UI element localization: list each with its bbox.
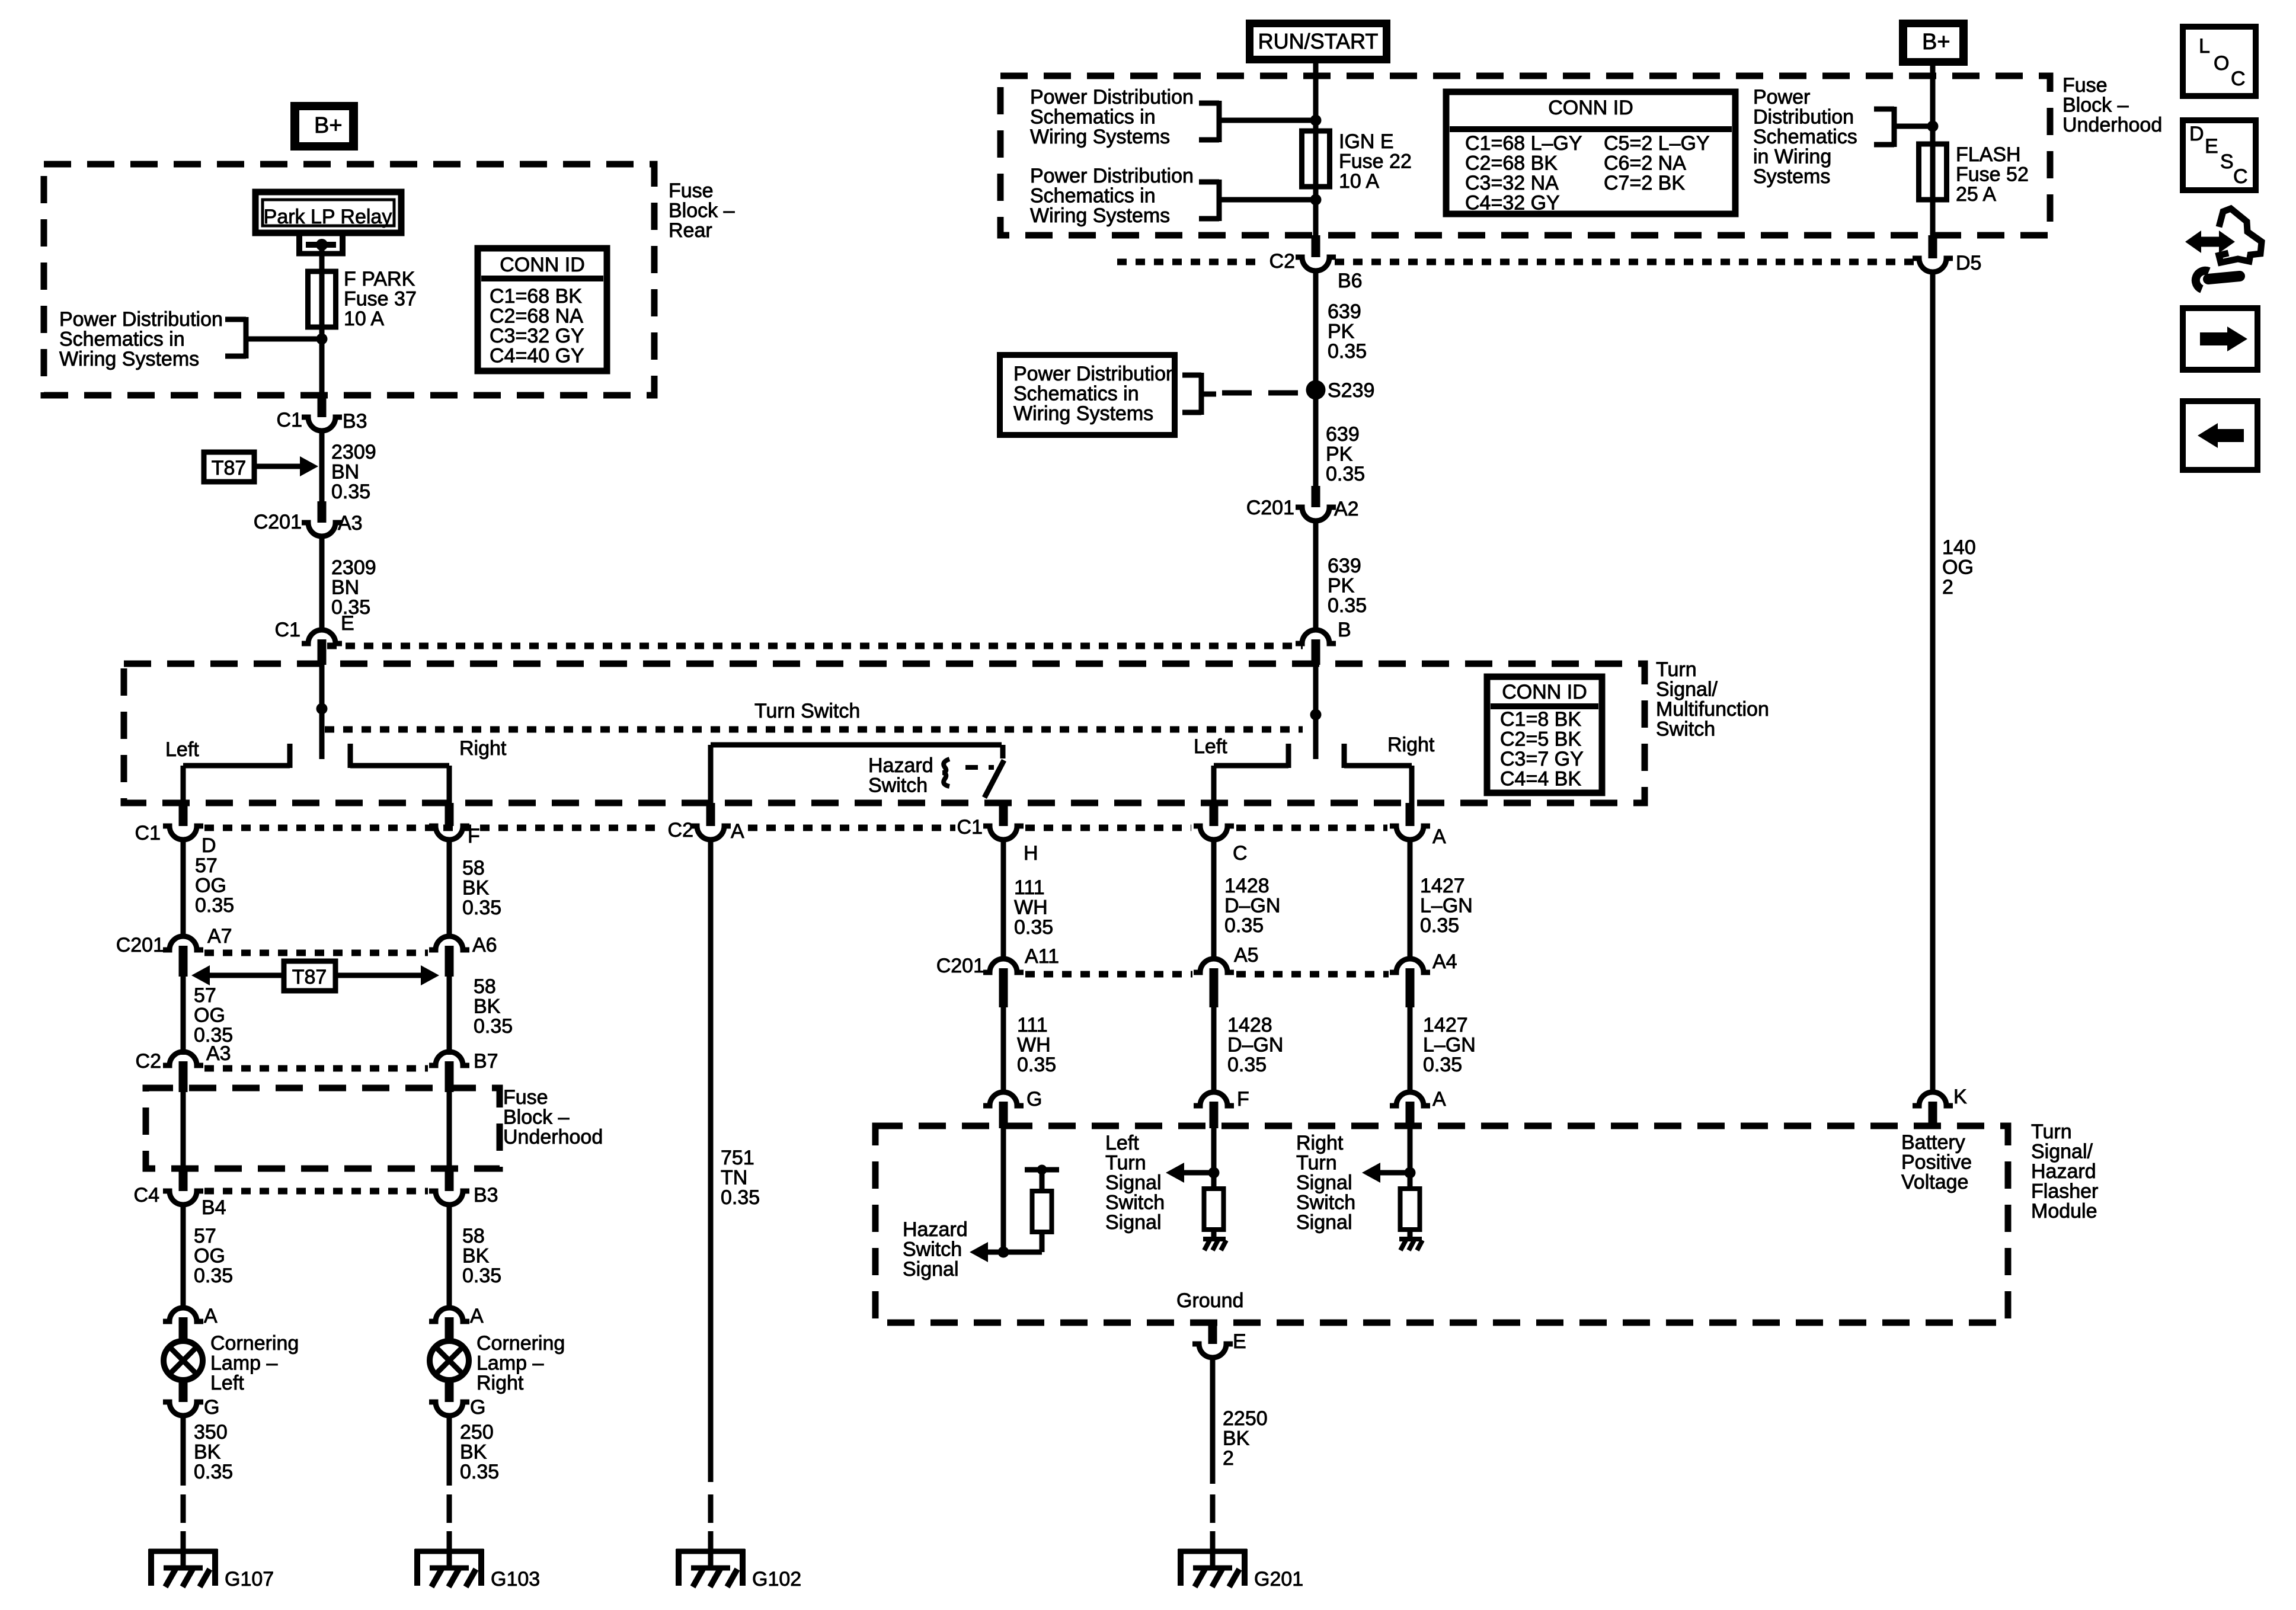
svg-text:10 A: 10 A xyxy=(1339,170,1379,193)
connector C1 B3 xyxy=(277,395,367,433)
svg-text:Turn: Turn xyxy=(1105,1152,1146,1174)
svg-text:E: E xyxy=(1233,1330,1246,1353)
ground G201 xyxy=(1178,1531,1303,1590)
svg-text:Turn: Turn xyxy=(1296,1152,1337,1174)
svg-text:Rear: Rear xyxy=(669,219,712,242)
svg-text:CONN ID: CONN ID xyxy=(1548,97,1633,119)
connector C2 A3 xyxy=(136,1050,203,1092)
svg-text:C: C xyxy=(1233,842,1248,865)
wire A7 to C2 (57 OG) xyxy=(181,977,186,1055)
svg-text:111: 111 xyxy=(1017,1014,1048,1036)
dash to ground G201 xyxy=(1210,1494,1216,1523)
dotted connector line C1 (E to B) xyxy=(327,643,1303,649)
svg-text:G: G xyxy=(204,1396,219,1419)
svg-text:T87: T87 xyxy=(212,457,247,479)
svg-text:Left: Left xyxy=(1105,1132,1139,1154)
svg-text:0.35: 0.35 xyxy=(462,1265,501,1287)
svg-text:A5: A5 xyxy=(1234,944,1259,966)
svg-text:0.35: 0.35 xyxy=(1328,340,1367,363)
svg-text:BK: BK xyxy=(460,1441,487,1464)
svg-text:BK: BK xyxy=(462,1245,490,1267)
svg-text:A: A xyxy=(204,1305,218,1327)
svg-text:C1=68 BK: C1=68 BK xyxy=(490,285,582,308)
connector B7 xyxy=(429,1050,498,1092)
wire C to C201-A5 (1428 D-GN) xyxy=(1211,838,1217,960)
dotted connector line C201 (A11-A5-A4) xyxy=(1025,971,1192,978)
wire label 1427 L-GN 0.35 (lower) xyxy=(1423,1014,1476,1076)
svg-text:1428: 1428 xyxy=(1224,875,1269,897)
wire C201-A2 to C1-B (639 PK) xyxy=(1313,520,1319,630)
wire label 1427 L-GN 0.35 (upper) xyxy=(1420,875,1473,937)
fuse block underhood dashed box (top) xyxy=(1000,76,2050,235)
svg-text:Underhood: Underhood xyxy=(503,1126,603,1148)
svg-text:2: 2 xyxy=(1942,576,1953,598)
svg-text:G107: G107 xyxy=(225,1568,274,1590)
svg-text:Cornering: Cornering xyxy=(210,1332,299,1355)
svg-text:B4: B4 xyxy=(202,1196,226,1219)
svg-text:BK: BK xyxy=(462,877,490,900)
dotted connector line C2/D5 xyxy=(1117,259,1261,265)
svg-text:Schematics in: Schematics in xyxy=(1013,383,1139,405)
svg-text:0.35: 0.35 xyxy=(1326,463,1365,485)
tap line flash xyxy=(1894,124,1933,129)
svg-text:10 A: 10 A xyxy=(344,308,384,330)
CONN ID table (fuse block rear) xyxy=(478,248,607,371)
right resistor hatch ground xyxy=(1399,1239,1422,1250)
label: Fuse Block - Underhood (top right) xyxy=(2062,74,2162,136)
svg-text:Fuse: Fuse xyxy=(503,1086,548,1109)
svg-text:FLASH: FLASH xyxy=(1956,143,2021,166)
svg-text:O: O xyxy=(2214,52,2229,75)
label: Fuse Block - Underhood (small) xyxy=(503,1086,603,1148)
svg-text:Lamp –: Lamp – xyxy=(210,1352,277,1375)
svg-text:0.35: 0.35 xyxy=(721,1186,760,1209)
wire through small underhood box (left) xyxy=(181,1092,186,1171)
connector F (module) xyxy=(1194,1088,1249,1128)
svg-text:Hazard: Hazard xyxy=(868,754,933,777)
box: Power Distribution Schematics in Wiring Systems (S239) xyxy=(1000,355,1177,435)
svg-text:Right: Right xyxy=(1296,1132,1344,1154)
svg-text:PK: PK xyxy=(1328,575,1355,597)
connector C201 A3 xyxy=(254,501,363,536)
svg-text:Power: Power xyxy=(1753,86,1810,108)
ground G107 xyxy=(149,1531,274,1590)
label: Battery Positive Voltage xyxy=(1901,1131,1972,1193)
junction dot below fuse 37 xyxy=(316,334,328,345)
right turn input wire inside module xyxy=(1408,1128,1413,1189)
hazard pull resistor T-bar xyxy=(1025,1165,1059,1192)
CONN ID table (multifunction switch) xyxy=(1487,677,1602,793)
svg-text:D: D xyxy=(202,834,216,857)
svg-text:Power Distribution: Power Distribution xyxy=(59,308,223,331)
wire label 639 PK 0.35 (lower) xyxy=(1328,555,1367,617)
svg-text:Signal: Signal xyxy=(1105,1211,1162,1234)
label: Power Distribution Schematics in Wiring Systems (flash) xyxy=(1753,86,1857,188)
svg-text:C2=5 BK: C2=5 BK xyxy=(1500,728,1581,751)
svg-text:IGN E: IGN E xyxy=(1339,130,1394,153)
svg-text:0.35: 0.35 xyxy=(1017,1054,1056,1076)
svg-text:140: 140 xyxy=(1942,536,1976,559)
svg-text:C201: C201 xyxy=(254,511,302,533)
svg-text:D: D xyxy=(2189,123,2204,145)
svg-text:Signal/: Signal/ xyxy=(1656,678,1718,701)
svg-text:BN: BN xyxy=(331,577,359,599)
svg-text:Schematics in: Schematics in xyxy=(1030,185,1156,207)
svg-text:C2: C2 xyxy=(136,1050,161,1073)
svg-text:Power Distribution: Power Distribution xyxy=(1013,363,1177,385)
ground G102 xyxy=(676,1531,801,1590)
svg-text:0.35: 0.35 xyxy=(1227,1054,1267,1076)
resistor lower lead (hazard) xyxy=(1040,1232,1045,1252)
svg-text:D–GN: D–GN xyxy=(1224,895,1280,917)
wire label 751 TN 0.35 xyxy=(721,1147,760,1209)
right turn resistor xyxy=(1400,1189,1420,1230)
svg-text:A4: A4 xyxy=(1432,950,1457,973)
connector C201 A2 xyxy=(1246,486,1359,521)
svg-text:A11: A11 xyxy=(1025,945,1059,968)
lamp left lower stub xyxy=(179,1379,188,1402)
svg-text:2309: 2309 xyxy=(331,556,376,579)
wire G to ground (350 BK) xyxy=(181,1414,186,1486)
svg-text:Turn Switch: Turn Switch xyxy=(754,700,860,722)
svg-text:S: S xyxy=(2220,151,2234,173)
svg-text:G: G xyxy=(470,1396,485,1419)
svg-text:1427: 1427 xyxy=(1420,875,1465,897)
svg-text:1428: 1428 xyxy=(1227,1014,1272,1036)
connector A (right turn signal) xyxy=(1390,803,1446,848)
RUN/START power symbol xyxy=(1246,20,1390,63)
connector G (module) xyxy=(983,1088,1042,1128)
wire label 350 BK 0.35 xyxy=(194,1421,233,1483)
svg-text:Signal: Signal xyxy=(1296,1172,1352,1194)
svg-text:OG: OG xyxy=(1942,556,1974,579)
wire label 2250 BK 2 xyxy=(1223,1407,1268,1470)
wire label 111 WH 0.35 (upper) xyxy=(1014,876,1053,939)
fuse FLASH Fuse 52 25 A xyxy=(1919,144,1947,200)
svg-text:E: E xyxy=(2205,135,2218,158)
wire F to C201-A6 (58 BK) xyxy=(447,838,452,936)
svg-text:C5=2 L–GY: C5=2 L–GY xyxy=(1604,132,1710,155)
svg-text:0.35: 0.35 xyxy=(1014,916,1053,939)
svg-text:639: 639 xyxy=(1326,423,1360,446)
wire A to C201-A4 (1427 L-GN) xyxy=(1408,838,1413,960)
wire label 2309 BN 0.35 (lower) xyxy=(331,556,376,619)
svg-text:Park LP Relay: Park LP Relay xyxy=(264,206,392,228)
svg-text:Lamp –: Lamp – xyxy=(477,1352,543,1375)
svg-text:L–GN: L–GN xyxy=(1423,1034,1476,1057)
svg-text:Turn: Turn xyxy=(1656,658,1697,681)
svg-text:C7=2 BK: C7=2 BK xyxy=(1604,172,1685,194)
wire A6 to B7 (58 BK) xyxy=(447,977,452,1055)
svg-text:Wiring Systems: Wiring Systems xyxy=(1030,126,1170,148)
label: Power Distribution Schematics in Wiring Systems (rear) xyxy=(59,308,223,370)
svg-text:Wiring Systems: Wiring Systems xyxy=(1013,402,1153,425)
relay pin terminal xyxy=(296,236,346,256)
hazard switch actuator squiggle xyxy=(943,759,949,786)
svg-text:Signal: Signal xyxy=(1105,1172,1162,1194)
svg-text:C4=40 GY: C4=40 GY xyxy=(490,345,584,367)
label: IGN E Fuse 22 10 A xyxy=(1339,130,1412,193)
svg-text:G102: G102 xyxy=(752,1568,801,1590)
svg-text:0.35: 0.35 xyxy=(194,1461,233,1483)
mechanical link dotted line xyxy=(325,726,1303,733)
svg-text:A3: A3 xyxy=(338,512,363,534)
connector A (cornering lamp left) xyxy=(163,1305,218,1342)
svg-text:Fuse: Fuse xyxy=(2062,74,2108,97)
svg-text:Hazard: Hazard xyxy=(903,1218,968,1241)
svg-text:F: F xyxy=(1237,1088,1249,1110)
wire A4 to A (1427 L-GN) xyxy=(1408,1007,1413,1092)
svg-text:C1=68 L–GY: C1=68 L–GY xyxy=(1465,132,1582,155)
right resistor ground lead xyxy=(1408,1230,1413,1239)
connector C201 A6 xyxy=(429,934,497,977)
hazard signal arrow xyxy=(970,1242,1042,1262)
wire label 58 BK 0.35 (lower right) xyxy=(462,1225,501,1287)
svg-text:WH: WH xyxy=(1014,897,1048,919)
svg-text:Hazard: Hazard xyxy=(2031,1160,2096,1183)
wire label 639 PK 0.35 (upper) xyxy=(1328,300,1367,363)
left turn junction dot xyxy=(1208,1167,1220,1179)
bracket (rear power distribution) xyxy=(225,317,246,359)
double arrow T87 xyxy=(191,965,439,985)
svg-text:111: 111 xyxy=(1014,876,1045,899)
wire label 250 BK 0.35 xyxy=(460,1421,499,1483)
svg-text:Flasher: Flasher xyxy=(2031,1180,2098,1203)
svg-text:L: L xyxy=(2199,35,2210,57)
connector C4 B4 xyxy=(134,1169,226,1219)
svg-text:0.35: 0.35 xyxy=(194,1265,233,1287)
svg-text:58: 58 xyxy=(462,857,485,879)
dotted connector line C4 row xyxy=(204,1188,428,1195)
svg-text:0.35: 0.35 xyxy=(1224,914,1264,937)
label: Fuse Block - Rear xyxy=(669,180,735,242)
svg-text:C1: C1 xyxy=(135,822,161,844)
svg-text:Switch: Switch xyxy=(1296,1192,1355,1214)
svg-text:Multifunction: Multifunction xyxy=(1656,698,1769,721)
svg-text:A: A xyxy=(1432,1088,1446,1110)
svg-text:A6: A6 xyxy=(472,934,497,956)
wire label 58 BK 0.35 (upper right) xyxy=(462,857,501,919)
middle pole junction dot xyxy=(1310,709,1322,721)
svg-text:Schematics in: Schematics in xyxy=(59,328,185,351)
svg-text:C1: C1 xyxy=(957,816,983,838)
svg-text:C3=32 NA: C3=32 NA xyxy=(1465,172,1559,194)
svg-text:Fuse: Fuse xyxy=(669,180,714,202)
svg-text:Right: Right xyxy=(459,737,507,760)
icon box arrow left xyxy=(2183,401,2257,470)
svg-text:Voltage: Voltage xyxy=(1901,1171,1968,1193)
svg-text:C: C xyxy=(2231,68,2246,90)
connector C201 A4 xyxy=(1390,950,1457,1007)
svg-text:58: 58 xyxy=(462,1225,485,1247)
turn signal/multifunction switch dashed box xyxy=(124,664,1645,803)
label T87 xyxy=(204,452,254,482)
connector C201 A11 xyxy=(936,945,1059,1007)
svg-text:BK: BK xyxy=(474,996,501,1018)
label: Turn Signal/Multifunction Switch xyxy=(1656,658,1769,741)
svg-text:Underhood: Underhood xyxy=(2062,114,2162,136)
label: Hazard Switch Signal xyxy=(903,1218,968,1281)
svg-text:CONN ID: CONN ID xyxy=(500,254,585,276)
cornering lamp left xyxy=(164,1341,203,1380)
svg-text:2250: 2250 xyxy=(1223,1407,1268,1430)
svg-text:Systems: Systems xyxy=(1753,165,1830,188)
wire C201-A3 to C1-E (2309 BN) xyxy=(319,535,325,630)
svg-text:2: 2 xyxy=(1223,1447,1234,1470)
svg-text:Switch: Switch xyxy=(1656,718,1715,741)
svg-text:B: B xyxy=(1338,619,1351,641)
svg-text:C2: C2 xyxy=(668,819,693,841)
svg-text:F: F xyxy=(468,825,480,847)
wire A11 to G (111 WH) xyxy=(1001,1007,1006,1092)
svg-text:in Wiring: in Wiring xyxy=(1753,146,1831,168)
connector C2 B6 xyxy=(1269,235,1363,292)
icon box DESC xyxy=(2183,120,2256,190)
wire label 2309 BN 0.35 (upper) xyxy=(331,441,376,503)
svg-text:639: 639 xyxy=(1328,300,1361,323)
label T87 (C201 link) xyxy=(284,961,335,991)
wire H to C201-A11 (111 WH) xyxy=(1001,838,1006,960)
ground G103 xyxy=(415,1531,540,1590)
svg-text:G103: G103 xyxy=(491,1568,540,1590)
svg-text:F PARK: F PARK xyxy=(344,268,415,290)
wire D to C201-A7 (57 OG) xyxy=(181,838,186,936)
icon box LOC xyxy=(2183,27,2256,96)
svg-text:A3: A3 xyxy=(206,1042,231,1065)
svg-text:57: 57 xyxy=(195,854,218,877)
connector G (lamp left) xyxy=(163,1396,219,1419)
svg-text:BK: BK xyxy=(1223,1427,1250,1450)
connector E (module ground) xyxy=(1192,1323,1246,1358)
svg-text:Signal/: Signal/ xyxy=(2031,1141,2093,1163)
svg-text:RUN/START: RUN/START xyxy=(1258,29,1379,53)
svg-text:Power Distribution: Power Distribution xyxy=(1030,86,1194,108)
svg-text:Ground: Ground xyxy=(1176,1289,1243,1312)
wire B+ down through FLASH fuse xyxy=(1930,62,1936,235)
svg-text:Right: Right xyxy=(477,1372,524,1394)
hazard feed wire xyxy=(711,745,1003,803)
icon harness/wrench xyxy=(2185,209,2262,289)
label: Right Turn Signal Switch Signal xyxy=(1296,1132,1355,1234)
svg-text:Switch: Switch xyxy=(868,774,928,797)
svg-text:0.35: 0.35 xyxy=(462,897,501,919)
connector C1 B xyxy=(1296,619,1351,665)
svg-text:Right: Right xyxy=(1387,734,1435,756)
svg-text:PK: PK xyxy=(1328,321,1355,343)
svg-text:Fuse 22: Fuse 22 xyxy=(1339,151,1412,173)
svg-text:57: 57 xyxy=(194,1225,216,1247)
label: F PARK Fuse 37 10 A xyxy=(344,268,417,330)
B+ power symbol (rear fuse block) xyxy=(290,102,358,151)
svg-text:OG: OG xyxy=(195,875,226,897)
svg-text:C4=4 BK: C4=4 BK xyxy=(1500,768,1581,790)
B+ power symbol (underhood) xyxy=(1899,20,1968,66)
bracket flash xyxy=(1874,107,1894,147)
svg-text:Positive: Positive xyxy=(1901,1151,1972,1174)
svg-text:G: G xyxy=(1027,1088,1042,1110)
svg-text:BK: BK xyxy=(194,1441,221,1464)
svg-text:Left: Left xyxy=(1194,735,1227,758)
svg-text:0.35: 0.35 xyxy=(1328,594,1367,617)
junction dot below IGN E fuse xyxy=(1310,194,1322,206)
connector C201 A7 xyxy=(116,925,232,977)
left turn input wire inside module xyxy=(1211,1128,1217,1189)
dashed leader to S239 xyxy=(1222,391,1304,396)
wire S239 to C201-A2 (639 PK) xyxy=(1313,390,1319,502)
junction dot above IGN E fuse xyxy=(1310,115,1322,126)
dash to ground right xyxy=(447,1494,452,1523)
svg-text:A: A xyxy=(470,1305,484,1327)
connector A (module) xyxy=(1390,1088,1446,1128)
wire B4 to lamp A (57 OG) xyxy=(181,1204,186,1307)
svg-text:B3: B3 xyxy=(474,1184,498,1206)
wire label 57 OG 0.35 (upper left) xyxy=(195,854,234,917)
svg-text:Block –: Block – xyxy=(669,200,735,222)
junction dot above FLASH fuse xyxy=(1927,121,1939,132)
svg-text:B3: B3 xyxy=(343,410,367,433)
svg-text:2309: 2309 xyxy=(331,441,376,463)
connector C1 E xyxy=(275,612,354,665)
bracket S239 xyxy=(1182,373,1216,415)
CONN ID table (fuse block underhood) xyxy=(1446,92,1735,215)
svg-text:Switch: Switch xyxy=(903,1238,962,1261)
svg-text:Cornering: Cornering xyxy=(477,1332,565,1355)
svg-text:S239: S239 xyxy=(1328,379,1374,402)
svg-text:C201: C201 xyxy=(1246,497,1294,519)
wire RUN/START down through fuse block xyxy=(1313,59,1319,235)
wire G to ground (250 BK) xyxy=(447,1414,452,1486)
label: Cornering Lamp - Left xyxy=(210,1332,299,1394)
wire relay to fuse F PARK xyxy=(319,245,325,395)
svg-text:A2: A2 xyxy=(1334,498,1359,520)
label: Power Distribution Schematics in Wiring Systems (ign 1) xyxy=(1030,86,1194,148)
svg-text:57: 57 xyxy=(194,984,216,1007)
label: Hazard Switch xyxy=(868,754,933,797)
connector C (left turn signal) xyxy=(1194,803,1248,865)
svg-text:OG: OG xyxy=(194,1245,225,1267)
svg-text:0.35: 0.35 xyxy=(331,481,370,503)
wire label 111 WH 0.35 (lower) xyxy=(1017,1014,1056,1076)
svg-text:OG: OG xyxy=(194,1004,225,1027)
wire label 1428 D-GN 0.35 (lower) xyxy=(1227,1014,1283,1076)
label: FLASH Fuse 52 25 A xyxy=(1956,143,2029,206)
fuse IGN E Fuse 22 10 A xyxy=(1302,131,1330,187)
svg-text:751: 751 xyxy=(721,1147,754,1169)
svg-text:D5: D5 xyxy=(1956,252,1981,274)
connector D5 xyxy=(1913,235,1981,274)
svg-text:0.35: 0.35 xyxy=(1420,914,1459,937)
wire label 639 PK 0.35 (middle) xyxy=(1326,423,1365,485)
svg-text:B7: B7 xyxy=(474,1050,498,1073)
right turn junction dot xyxy=(1405,1167,1416,1179)
left resistor hatch ground xyxy=(1203,1239,1226,1250)
hazard input junction dot xyxy=(998,1247,1009,1258)
svg-text:Battery: Battery xyxy=(1901,1131,1965,1154)
svg-text:Signal: Signal xyxy=(1296,1211,1352,1234)
hazard actuator dashes xyxy=(965,765,978,770)
wire label 57 OG 0.35 (lower left) xyxy=(194,1225,233,1287)
dotted connector line C201 (A7-A6) xyxy=(204,950,428,956)
svg-text:B6: B6 xyxy=(1338,270,1363,292)
svg-text:C201: C201 xyxy=(936,955,984,977)
left pole wire xyxy=(319,665,325,759)
hazard switch blade xyxy=(984,760,1004,798)
wire label 57 OG 0.35 A3 xyxy=(194,984,233,1065)
wire label 140 OG 2 xyxy=(1942,536,1976,598)
wire A5 to F (1428 D-GN) xyxy=(1211,1007,1217,1092)
left turn resistor xyxy=(1204,1189,1224,1230)
connector B3 (right) xyxy=(429,1169,498,1206)
